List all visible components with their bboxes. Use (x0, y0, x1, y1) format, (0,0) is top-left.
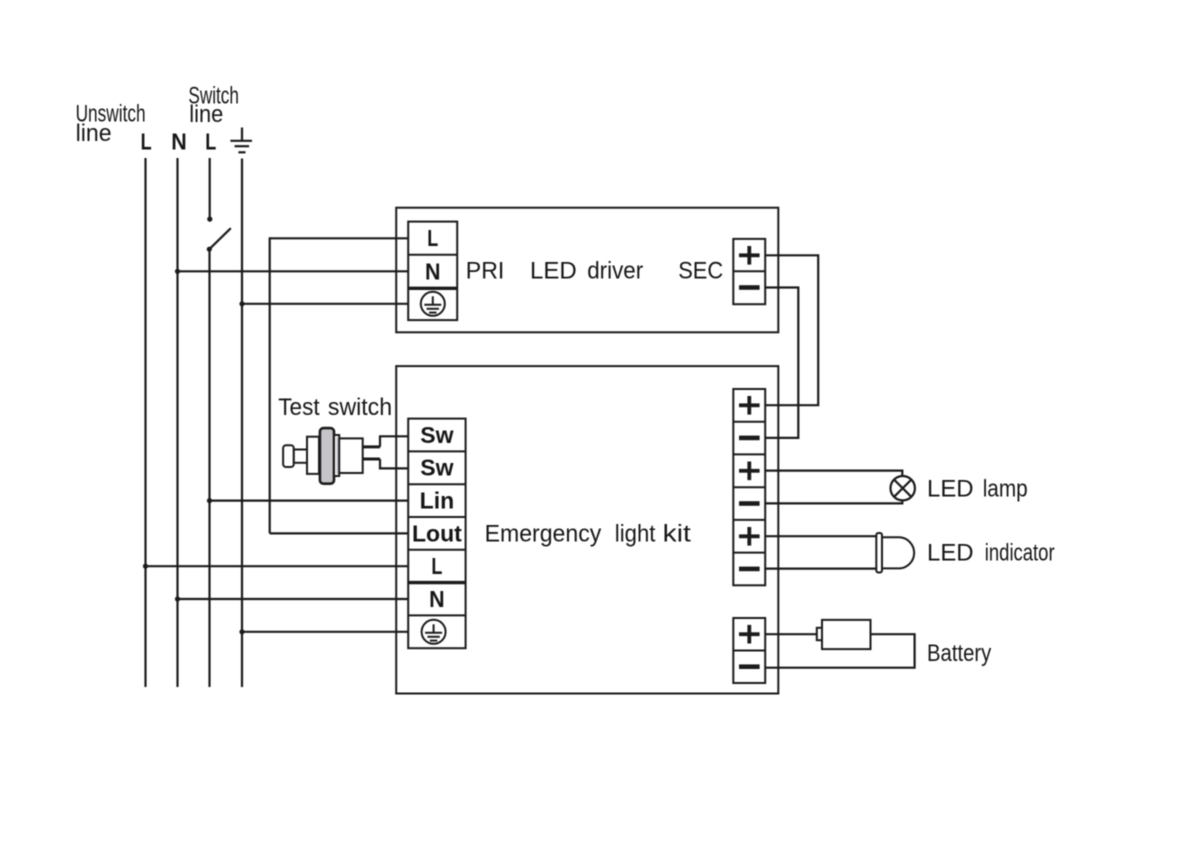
ground earth symbol (230, 128, 252, 153)
wire indicator plus (765, 535, 876, 537)
wire test switch to Sw terminal 2 (380, 459, 408, 468)
wire switch line vertical lower (208, 249, 210, 687)
svg-text:L: L (205, 128, 216, 154)
svg-text:Lout: Lout (412, 520, 462, 546)
wire test switch to Sw terminal 1 (380, 436, 408, 447)
switch S1 blade (207, 217, 231, 252)
wire battery plus (765, 633, 817, 635)
pin label minus lamp (739, 501, 760, 506)
wire Lout to driver L (270, 532, 409, 534)
wire ground vertical (241, 159, 243, 688)
label LED driver (530, 258, 643, 285)
wire SEC plus to kit plus (765, 255, 818, 405)
pin label plus indicator (739, 527, 760, 546)
pin label minus battery charge (739, 436, 760, 441)
label LED indicator (927, 540, 1055, 567)
kit right terminal block lower (733, 618, 765, 683)
wire driver N feed (178, 270, 409, 272)
svg-text:line: line (189, 101, 223, 128)
wire switch line vertical upper (209, 158, 211, 219)
LED indicator symbol D1 (876, 533, 914, 573)
pin label Lout (412, 520, 462, 546)
svg-text:LED: LED (927, 540, 974, 567)
label LED lamp (927, 475, 1028, 502)
junction earth line to kit earth (239, 629, 244, 634)
wire driver earth feed (242, 303, 408, 305)
svg-text:switch: switch (328, 394, 392, 421)
label PRI (466, 258, 505, 285)
wire SEC minus to kit minus (765, 288, 798, 438)
svg-text:Test: Test (278, 394, 320, 421)
junction N to driver (175, 269, 180, 274)
wire driver L feed (270, 238, 409, 533)
svg-text:Battery: Battery (927, 640, 991, 667)
pin label Sw 1 (420, 422, 453, 448)
svg-text:Sw: Sw (420, 455, 453, 481)
Emergency light kit box U2 (396, 366, 778, 693)
pin label minus of SEC (739, 285, 760, 290)
junction N line to kit N (175, 596, 180, 601)
junction earth to driver (239, 301, 244, 306)
svg-text:N: N (425, 258, 441, 284)
junction switch line to Lin (207, 498, 212, 503)
pin label N (171, 128, 187, 154)
test switch top prong (363, 445, 380, 448)
kit left terminal block (408, 419, 465, 649)
pin label plus battery charge (739, 396, 760, 415)
pin label N of kit (429, 586, 445, 612)
wire indicator minus (765, 567, 876, 569)
pin label plus battery (739, 625, 760, 644)
protective earth terminal of kit (422, 620, 446, 644)
pin label L of PRI (427, 225, 438, 251)
battery BT1 (817, 620, 871, 649)
wire Lin feed from switch line (210, 500, 409, 502)
terminal block SEC (733, 239, 765, 304)
pin label L of kit (431, 553, 442, 579)
pin label plus of SEC (739, 246, 760, 265)
svg-text:SEC: SEC (678, 258, 723, 285)
pin label Sw 2 (420, 455, 453, 481)
svg-text:kit: kit (663, 520, 691, 547)
svg-text:lamp: lamp (983, 475, 1028, 502)
svg-text:LED: LED (530, 258, 577, 285)
test switch SW1 button (283, 428, 363, 484)
pin label minus indicator (739, 567, 760, 572)
pin label L switched (205, 128, 216, 154)
terminal block PRI (408, 222, 457, 321)
label SEC (678, 258, 723, 285)
svg-text:Lin: Lin (420, 488, 455, 514)
svg-text:indicator: indicator (985, 540, 1055, 567)
wire battery return (765, 634, 914, 668)
svg-text:PRI: PRI (466, 258, 505, 285)
wire kit earth feed (242, 631, 408, 633)
LED lamp symbol (891, 476, 915, 500)
wire lamp minus (765, 500, 902, 503)
svg-text:N: N (429, 586, 445, 612)
wire L unswitched vertical (144, 158, 146, 687)
wire kit L feed (146, 565, 409, 567)
svg-text:driver: driver (587, 258, 643, 285)
svg-text:L: L (431, 553, 442, 579)
label Emergency light kit (485, 520, 692, 547)
svg-text:Sw: Sw (420, 422, 453, 448)
label Unswitch line (76, 100, 146, 147)
pin label minus battery (739, 664, 760, 669)
kit right terminal block upper (733, 389, 765, 585)
pin label N of PRI (425, 258, 441, 284)
junction L line to kit L (143, 564, 148, 569)
svg-text:light: light (615, 520, 656, 547)
wire kit N feed (178, 598, 409, 600)
pin label Lin (420, 488, 455, 514)
wire N vertical (176, 158, 178, 687)
svg-text:LED: LED (927, 475, 974, 502)
protective earth terminal of PRI (421, 292, 445, 316)
svg-text:L: L (141, 128, 152, 154)
svg-text:Emergency: Emergency (485, 520, 602, 547)
svg-text:L: L (427, 225, 438, 251)
label Battery (927, 640, 991, 667)
label Switch line (188, 83, 239, 129)
LED driver box U1 (396, 208, 778, 333)
test switch bottom prong (363, 458, 380, 461)
svg-text:N: N (171, 128, 187, 154)
pin label plus lamp (739, 462, 760, 481)
svg-text:line: line (76, 120, 112, 147)
wire lamp plus (765, 471, 902, 477)
label Test switch (278, 394, 392, 421)
pin label L unswitched (141, 128, 152, 154)
